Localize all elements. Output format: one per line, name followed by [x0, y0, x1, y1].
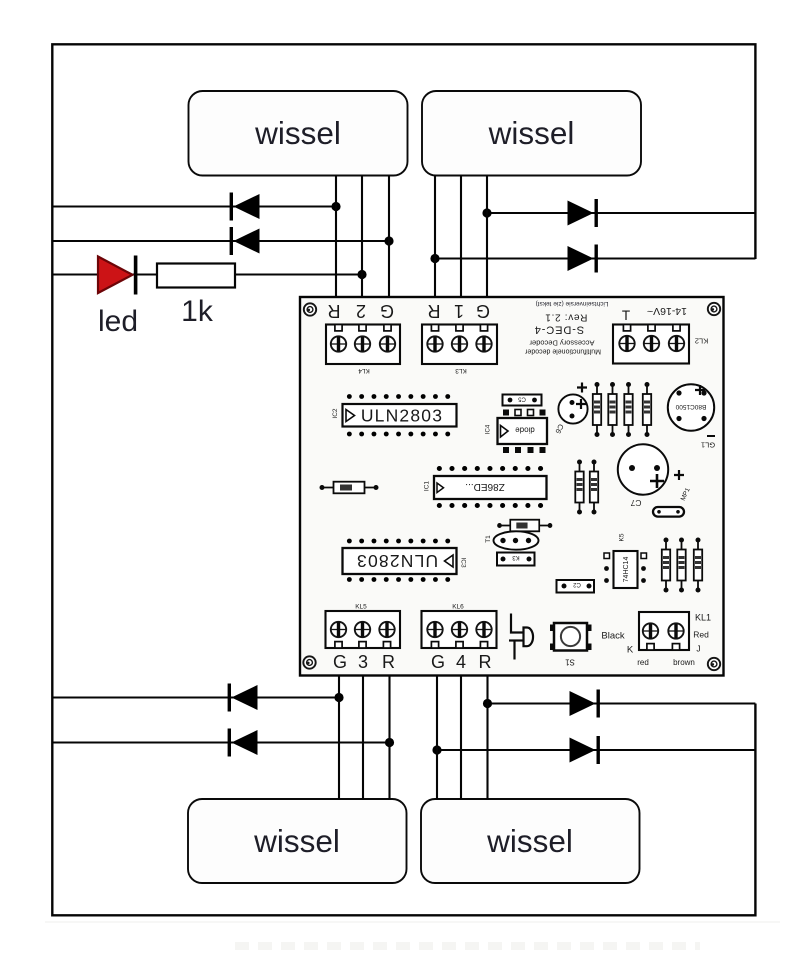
svg-text:ULN2803: ULN2803	[361, 406, 443, 426]
LED D-led (red)	[98, 256, 137, 295]
capacitor C7 (electrolytic)	[618, 444, 684, 508]
svg-text:Black: Black	[601, 631, 624, 642]
svg-text:K: K	[627, 645, 634, 656]
wire top-left row 2	[52, 240, 389, 242]
svg-text:wissel: wissel	[486, 823, 573, 859]
resistor R9	[677, 538, 685, 593]
resistor R5	[575, 460, 583, 515]
svg-text:IC4: IC4	[486, 424, 492, 434]
wire KL6 G to wissel4	[436, 676, 438, 800]
mounting hole bottom-right	[708, 658, 720, 670]
wire wissel2 pin G to KL3	[486, 176, 488, 300]
svg-text:4: 4	[456, 652, 466, 672]
terminal block KL3	[422, 325, 497, 375]
diode D-TL2	[230, 227, 260, 255]
svg-text:K3: K3	[512, 554, 520, 560]
diode D-TL1	[230, 193, 260, 221]
svg-text:C7: C7	[630, 498, 641, 508]
node junction wire2/G-wire	[384, 236, 393, 245]
svg-text:Z86ED...: Z86ED...	[465, 481, 504, 492]
terminal block KL1	[639, 612, 689, 650]
diode D-BR1	[570, 690, 600, 718]
diode D-TR1	[568, 199, 598, 227]
svg-text:Rev: 2.1: Rev: 2.1	[545, 312, 588, 323]
box wissel 4 (bottom-right)	[421, 799, 640, 883]
resistor R6	[590, 460, 598, 515]
jack JP1	[509, 614, 533, 660]
resistor 1k	[157, 264, 235, 288]
node junction BL2/R-wire	[385, 738, 394, 747]
svg-text:1: 1	[454, 301, 464, 321]
svg-text:KL6: KL6	[452, 604, 464, 611]
mounting hole top-right	[708, 303, 720, 315]
wire top-left row 1	[52, 205, 336, 207]
node junction BR2/G-wire	[432, 745, 441, 754]
svg-text:brown: brown	[673, 658, 695, 667]
svg-text:wissel: wissel	[254, 115, 341, 151]
svg-text:red: red	[637, 658, 649, 667]
diode D-BL1	[228, 684, 258, 712]
IC U1 Z86E04	[424, 469, 547, 506]
wire KL6 4 to wissel4	[460, 676, 462, 800]
svg-text:J: J	[696, 644, 700, 654]
diode D1	[643, 382, 651, 437]
svg-text:IC2: IC2	[332, 408, 339, 419]
wire bottom-right row 2	[437, 749, 755, 751]
wire wissel1 pin 2 to KL4	[361, 176, 363, 300]
node junction wire1/R-wire	[331, 202, 340, 211]
wire wissel1 pin G to KL4	[388, 176, 390, 300]
resistor R2	[608, 382, 616, 437]
svg-text:K5: K5	[619, 533, 626, 541]
svg-text:KL1: KL1	[695, 613, 711, 623]
svg-text:G: G	[476, 301, 490, 321]
svg-text:KL4: KL4	[358, 367, 370, 374]
pushbutton S1	[550, 623, 592, 667]
capacitor C6 (electrolytic)	[553, 383, 587, 436]
scan artifact blobs	[235, 942, 700, 950]
wire bottom-left row 1	[52, 696, 339, 698]
node junction led-wire/2-wire	[357, 270, 366, 279]
resistor R12	[320, 482, 379, 494]
node junction TR1/G-wire	[482, 208, 491, 217]
PCB board outline	[300, 297, 724, 676]
node junction TR2/R-wire	[430, 254, 439, 263]
resistor R10	[694, 538, 702, 593]
svg-text:G: G	[431, 652, 445, 672]
svg-text:KL2: KL2	[695, 337, 708, 346]
svg-text:ULN2803: ULN2803	[356, 551, 438, 571]
resistor R1	[593, 382, 601, 437]
wire top-right row 1	[487, 212, 755, 214]
terminal block KL6	[422, 604, 497, 649]
resistor R8	[662, 538, 670, 593]
rectifier GL1	[668, 384, 715, 449]
svg-text:led: led	[98, 305, 138, 338]
terminal block KL4	[326, 325, 400, 375]
crystal MP1	[653, 487, 692, 517]
svg-text:T: T	[622, 308, 630, 323]
terminal block KL5	[326, 604, 401, 649]
wire led row	[52, 273, 362, 275]
node junction BL1/G-wire	[334, 693, 343, 702]
svg-text:G: G	[380, 301, 394, 321]
svg-text:IC1: IC1	[424, 481, 431, 492]
svg-text:G: G	[333, 652, 347, 672]
wire top-right row 2	[435, 257, 755, 259]
svg-text:S-DEC-4: S-DEC-4	[534, 324, 584, 336]
wire wissel2 pin 1 to KL3	[460, 176, 462, 300]
optocoupler K5	[604, 533, 647, 588]
svg-text:Multifunctionele decoder: Multifunctionele decoder	[524, 348, 601, 355]
IC U3 ULN2803 (flipped)	[343, 541, 467, 580]
diode D-BR2	[570, 736, 600, 764]
diode D-BL2	[228, 729, 258, 757]
svg-text:wissel: wissel	[253, 823, 340, 859]
transistor T1 (oval pad)	[485, 531, 539, 549]
resistor R3	[624, 382, 632, 437]
svg-text:C5: C5	[518, 396, 526, 402]
wire KL5 3 to wissel3	[362, 676, 364, 800]
svg-text:R: R	[328, 301, 341, 321]
wire wissel2 pin R to KL3	[434, 176, 436, 300]
svg-text:wissel: wissel	[488, 115, 575, 151]
terminal block KL2	[613, 325, 708, 364]
svg-text:diode: diode	[515, 426, 535, 435]
box wissel 1 (top-left)	[189, 91, 408, 176]
svg-text:74HC14: 74HC14	[623, 557, 630, 583]
svg-text:R: R	[479, 652, 492, 672]
svg-text:B80C1500: B80C1500	[675, 403, 706, 410]
svg-text:KL5: KL5	[355, 604, 367, 611]
svg-text:14-16V~: 14-16V~	[647, 305, 687, 317]
wire KL5 G to wissel3	[338, 676, 340, 800]
svg-text:Red: Red	[693, 630, 709, 640]
IC U4 (DIP8)	[486, 410, 548, 454]
svg-text:R: R	[428, 301, 441, 321]
svg-text:IC3: IC3	[460, 557, 467, 568]
diode D-TR2	[568, 245, 598, 273]
wire KL5 R to wissel3	[388, 676, 390, 800]
wire outer bus loop (left/top/bottom rails with right-side gap)	[52, 44, 755, 915]
svg-text:Accessory Decoder: Accessory Decoder	[529, 339, 595, 348]
svg-text:C2: C2	[573, 581, 581, 587]
node junction BR1/R-wire	[483, 699, 492, 708]
mounting hole bottom-left	[303, 656, 315, 668]
svg-text:GL1: GL1	[701, 441, 715, 450]
box wissel 3 (bottom-left)	[188, 799, 407, 883]
scan artifact line	[45, 921, 780, 923]
svg-text:Lichtseinversie (zie tekst): Lichtseinversie (zie tekst)	[536, 300, 609, 307]
svg-text:2: 2	[356, 301, 366, 321]
wire bottom-left row 2	[52, 741, 389, 743]
IC U2 ULN2803	[332, 397, 457, 435]
wire bottom-right row 1	[488, 702, 756, 704]
svg-text:S1: S1	[565, 658, 575, 667]
jumper K3	[497, 553, 535, 566]
box wissel 2 (top-right)	[422, 91, 641, 176]
svg-text:1k: 1k	[181, 295, 214, 328]
capacitor C2	[557, 580, 595, 593]
capacitor C5	[503, 395, 542, 406]
svg-text:R: R	[382, 652, 395, 672]
wire KL6 R to wissel4	[486, 676, 488, 800]
svg-text:T1: T1	[485, 535, 492, 543]
svg-text:KL3: KL3	[455, 367, 467, 374]
svg-text:3: 3	[358, 652, 368, 672]
diode D5	[497, 520, 552, 532]
wire wissel1 pin R to KL4	[335, 176, 337, 300]
mounting hole top-left	[304, 303, 316, 315]
